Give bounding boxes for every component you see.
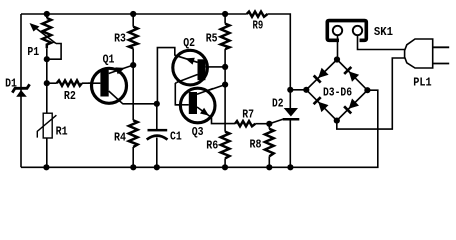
svg-text:Q1: Q1 [103, 52, 115, 66]
svg-text:R3: R3 [114, 32, 126, 46]
resistor R3 zigzag [129, 27, 138, 49]
node rail R8 [266, 164, 272, 170]
wire R8 junction diagonal to D2 cathode [269, 119, 283, 124]
svg-text:PL1: PL1 [413, 76, 431, 90]
wire R2 to Q1 base [47, 82, 57, 84]
node R7 R8 D2 [266, 121, 272, 127]
svg-text:R8: R8 [250, 138, 262, 152]
thermistor R1 diagonal [37, 115, 56, 137]
node P1 bottom [44, 56, 50, 62]
svg-text:C1: C1 [170, 130, 182, 144]
node rail D2 [287, 164, 293, 170]
bridge diode D5 upper-right [349, 71, 359, 81]
plug PL1 lower prong [433, 63, 450, 65]
potentiometer P1 wiper arrow [33, 26, 56, 44]
node bridge top [334, 56, 340, 62]
resistor R8 zigzag [265, 129, 274, 157]
svg-text:R2: R2 [64, 89, 76, 103]
resistor R6 zigzag [221, 132, 230, 159]
node bridge right [364, 87, 370, 93]
node R2 left [44, 80, 50, 86]
svg-text:R7: R7 [242, 107, 254, 121]
node top rail P1 [44, 11, 50, 17]
wire Q2 base to R5 line [212, 66, 225, 68]
resistor R5 zigzag [221, 24, 230, 49]
wire R3 bottom through to R4 top [132, 48, 134, 120]
svg-text:R1: R1 [56, 125, 68, 139]
wire top rail left of R9 [21, 13, 247, 15]
node rail R1 [43, 164, 49, 170]
wire bridge diamond edges [306, 60, 367, 121]
wire C1 bottom to rail [156, 138, 158, 168]
socket SK1 body [327, 21, 366, 41]
wire Q1 collector to C1 junction [123, 103, 157, 105]
transistor Q1 base lead inside [88, 82, 100, 84]
wire R6 bottom to rail [224, 158, 226, 167]
bridge diode D3 upper-left [318, 68, 328, 78]
plug PL1 upper prong [433, 46, 450, 48]
node bridge bottom [334, 118, 340, 124]
resistor R7 zigzag [235, 121, 255, 126]
transistor Q2 emitter with arrow [175, 55, 198, 62]
wire P1 wiper connect [47, 44, 61, 60]
svg-text:Q3: Q3 [192, 125, 204, 139]
wire R8 bottom to rail [268, 156, 270, 167]
wire P1 branch vertical [46, 14, 48, 18]
transistor Q3 base bar [189, 92, 197, 114]
transistor Q2 circle [173, 50, 208, 85]
zener diode D1 bar [12, 84, 29, 92]
transistor Q2 collector line [177, 75, 198, 83]
wire bridge bottom to PL1 lower path [337, 58, 405, 129]
wire P1 bottom to R2 junction to R1 [46, 48, 48, 114]
wire SK1 left pin to bridge top [337, 35, 339, 60]
thermistor R1 box [43, 113, 52, 138]
wire R1 bottom to rail [46, 137, 48, 167]
diode D2 triangle [284, 108, 298, 117]
node D2 top / bridge left wire [287, 87, 293, 93]
capacitor C1 top plate [148, 129, 168, 132]
svg-text:D2: D2 [272, 97, 284, 111]
resistor R2 zigzag [57, 80, 82, 85]
wire top rail right of R9 to corner down [268, 14, 291, 90]
transistor Q3 base lead [175, 104, 189, 106]
wire R7 right to R8 junction [255, 123, 269, 125]
node rail R6 [222, 164, 228, 170]
transistor Q2 base lead [205, 66, 212, 68]
transistor Q1 circle [92, 68, 127, 103]
transistor Q1 emitter with arrow [109, 65, 133, 73]
transistor Q3 circle [180, 88, 215, 123]
svg-text:D1: D1 [5, 76, 17, 90]
wire left border / D1 branch [20, 14, 22, 167]
svg-text:R4: R4 [114, 131, 126, 145]
svg-text:D3-D6: D3-D6 [323, 86, 352, 100]
wire C1 junction down to C1 top plate [156, 104, 158, 130]
wire bridge left horizontal [290, 89, 306, 91]
node bridge left [303, 87, 309, 93]
svg-text:R9: R9 [253, 18, 264, 32]
transistor Q2 base bar [198, 59, 206, 80]
svg-text:P1: P1 [27, 45, 39, 59]
transistor Q3 collector line [197, 89, 213, 95]
wire Q3 collector diagonal to R5 line [197, 85, 225, 95]
node Q1 emitter / R3 bottom [130, 62, 136, 68]
wire Q2 emitter staple to C1 junction [157, 48, 174, 104]
bridge diode D6 lower-right [349, 99, 359, 109]
svg-text:Q2: Q2 [183, 36, 195, 50]
socket SK1 left contact [333, 26, 342, 35]
node Q3 collector [222, 82, 228, 88]
svg-text:SK1: SK1 [374, 25, 393, 39]
node C1 top / Q1 collector [154, 101, 160, 107]
diode D2 bar [283, 118, 300, 121]
transistor Q1 base bar [100, 70, 108, 97]
node rail C1 [154, 164, 160, 170]
socket SK1 right contact [353, 26, 362, 35]
node rail R4 [130, 164, 136, 170]
wire R3 vertical: rail to zigzag [132, 14, 134, 27]
resistor R4 zigzag [129, 120, 138, 147]
svg-text:R5: R5 [206, 31, 218, 45]
node Q2 base / R5 bottom [222, 64, 228, 70]
transistor Q1 collector line [109, 91, 123, 104]
wire R5 bottom to Q2 base junction down to R6 [224, 49, 226, 132]
wire bottom rail [21, 90, 378, 167]
plug PL1 body [405, 39, 433, 68]
node top rail R3 [130, 11, 136, 17]
wire R4 bottom to rail [132, 147, 134, 167]
svg-text:R6: R6 [206, 138, 218, 152]
wire Q3 emitter to R7 [212, 118, 236, 124]
wire SK1 right pin to PL1 upper [358, 35, 406, 50]
wire Q2 collector down to Q3 base [175, 83, 189, 105]
wire R8 top stub [268, 124, 270, 129]
transistor Q3 emitter with arrow [197, 107, 212, 118]
resistor R9 zigzag [247, 12, 268, 17]
capacitor C1 bottom plate arc [147, 136, 168, 140]
resistor P1 zigzag [42, 18, 51, 48]
node top rail R5 [222, 11, 228, 17]
zener diode D1 triangle [16, 90, 27, 97]
wire D2 line vertical [289, 90, 291, 108]
wire R5 vertical top [224, 14, 226, 24]
bridge diode D4 lower-left [318, 102, 328, 112]
